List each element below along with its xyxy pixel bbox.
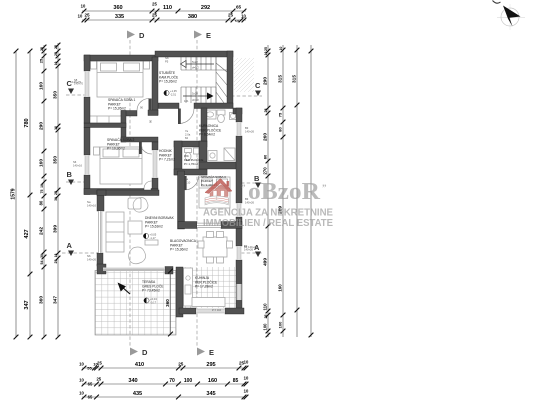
svg-text:75: 75 bbox=[278, 112, 283, 117]
svg-text:25: 25 bbox=[54, 52, 58, 56]
wall pier at bedroom1 door bbox=[148, 110, 158, 116]
svg-text:d=1/2: d=1/2 bbox=[192, 98, 199, 102]
svg-text:160: 160 bbox=[278, 284, 283, 292]
svg-text:100: 100 bbox=[184, 378, 193, 384]
svg-text:25: 25 bbox=[178, 362, 184, 367]
wall right exterior seg3 bbox=[236, 217, 242, 246]
kitchen tile grid bbox=[183, 267, 236, 308]
svg-text:100: 100 bbox=[278, 321, 283, 328]
living room sofa bbox=[106, 212, 124, 252]
svg-text:350: 350 bbox=[53, 91, 59, 99]
door bedroom2 bottom arc bbox=[144, 181, 152, 189]
svg-text:5,5: 5,5 bbox=[235, 19, 240, 23]
dining table with chairs bbox=[198, 232, 233, 264]
svg-text:290: 290 bbox=[263, 77, 269, 85]
svg-text:340: 340 bbox=[128, 378, 137, 384]
left dimension line innermost bbox=[57, 43, 59, 337]
window bedroom3 right bbox=[237, 203, 242, 217]
svg-text:25: 25 bbox=[54, 191, 58, 195]
svg-text:80: 80 bbox=[263, 154, 268, 159]
wall corner to right exterior bbox=[233, 108, 242, 114]
bedroom1 closet bbox=[85, 116, 121, 123]
wall living west pier bottom bbox=[97, 253, 103, 266]
wall living top bbox=[105, 190, 159, 196]
svg-text:25: 25 bbox=[40, 47, 44, 51]
terrace level marker bbox=[144, 297, 157, 304]
svg-text:E: E bbox=[206, 31, 211, 40]
svg-text:260: 260 bbox=[263, 133, 269, 141]
svg-text:P = 110: P = 110 bbox=[212, 308, 222, 312]
wall staircase right bbox=[227, 51, 233, 108]
svg-text:oBzoR: oBzoR bbox=[248, 178, 320, 205]
wall wc right bbox=[199, 141, 207, 175]
svg-text:1579: 1579 bbox=[10, 188, 16, 199]
svg-text:AGENCIJA ZA NEKRETNINE: AGENCIJA ZA NEKRETNINE bbox=[203, 208, 333, 219]
svg-text:B3 140+26: B3 140+26 bbox=[244, 245, 258, 249]
svg-text:10: 10 bbox=[244, 376, 249, 381]
svg-text:160: 160 bbox=[208, 378, 217, 384]
wall pier terrace-kitchen north bbox=[165, 267, 173, 275]
sliding door living-terrace bbox=[103, 268, 165, 272]
window kitchen bottom bbox=[196, 309, 225, 314]
svg-text:242: 242 bbox=[39, 227, 45, 235]
wall kitchen bottom left part bbox=[179, 308, 196, 314]
svg-text:25: 25 bbox=[264, 315, 268, 319]
svg-text:90: 90 bbox=[140, 106, 143, 110]
right dimension line 3 bbox=[296, 45, 298, 337]
section marker C left bbox=[67, 79, 82, 94]
svg-text:435: 435 bbox=[133, 391, 142, 397]
watermark text oBzoR bbox=[241, 178, 327, 205]
section marker E bottom bbox=[197, 348, 214, 358]
window bedroom2 left bbox=[85, 155, 90, 175]
section marker A right bbox=[244, 243, 261, 257]
wall wc left bbox=[174, 141, 182, 175]
svg-text:10: 10 bbox=[79, 391, 84, 396]
right dimension line 4 bbox=[310, 45, 312, 337]
tv cabinet bbox=[145, 240, 158, 245]
staircase winder treads bbox=[216, 57, 227, 103]
bed 2 with pillows bbox=[94, 147, 143, 184]
wall right exterior seg4 bbox=[236, 260, 242, 313]
wall living west top segment bbox=[97, 190, 104, 211]
svg-text:85: 85 bbox=[233, 378, 239, 384]
window dining right bbox=[237, 246, 242, 260]
svg-text:5x28: 5x28 bbox=[192, 92, 198, 96]
svg-text:10: 10 bbox=[81, 4, 86, 9]
svg-text:380: 380 bbox=[188, 14, 197, 20]
svg-text:10: 10 bbox=[244, 360, 249, 365]
svg-text:360: 360 bbox=[113, 5, 122, 11]
section marker E top bbox=[194, 31, 211, 41]
entry door leaf and arc bbox=[178, 109, 194, 125]
wall left exterior seg2 bbox=[84, 97, 90, 123]
svg-text:347: 347 bbox=[24, 300, 30, 309]
svg-text:90: 90 bbox=[178, 193, 182, 196]
wall bedroom1 right bbox=[152, 57, 158, 115]
bed 1 with pillows and nightstands bbox=[91, 61, 150, 97]
staircase treads lower flight bbox=[181, 87, 216, 103]
svg-text:10: 10 bbox=[279, 47, 283, 51]
washing machine bbox=[208, 148, 235, 161]
wall closet bedroom1 bbox=[84, 123, 126, 128]
svg-text:25: 25 bbox=[152, 2, 157, 7]
wall bath bottom bbox=[199, 162, 237, 169]
plant blob upper bbox=[133, 198, 148, 213]
door bedroom3 arc bbox=[184, 176, 199, 190]
section line B stubs bbox=[66, 181, 86, 183]
svg-text:350: 350 bbox=[53, 156, 59, 164]
svg-text:335: 335 bbox=[115, 14, 124, 20]
svg-text:347: 347 bbox=[53, 296, 59, 304]
svg-text:B: B bbox=[67, 170, 73, 179]
svg-text:”: ” bbox=[322, 183, 327, 193]
right dimension line 2 bbox=[282, 45, 284, 337]
window bath right bbox=[237, 122, 242, 136]
wall top staircase bbox=[155, 51, 233, 57]
svg-text:25: 25 bbox=[84, 12, 90, 17]
svg-text:10: 10 bbox=[78, 14, 83, 19]
svg-text:10: 10 bbox=[241, 14, 246, 19]
wall bedroom3 left bbox=[178, 171, 185, 229]
svg-text:100: 100 bbox=[263, 323, 268, 331]
terrace inner dimension 360 bbox=[170, 270, 172, 335]
wall staircase bottom with entry opening bbox=[158, 103, 179, 109]
svg-text:-2,51: -2,51 bbox=[170, 93, 177, 97]
wall left exterior seg3 bbox=[84, 128, 90, 156]
living level marker bbox=[143, 233, 156, 240]
wall right exterior seg1 bbox=[236, 108, 242, 122]
svg-text:315: 315 bbox=[278, 75, 284, 83]
glass door dining bbox=[197, 223, 221, 229]
svg-text:110: 110 bbox=[263, 303, 268, 311]
svg-text:160: 160 bbox=[39, 82, 45, 90]
wall dining top left part bbox=[178, 222, 197, 229]
section line A stubs bbox=[62, 252, 98, 254]
svg-text:345: 345 bbox=[206, 391, 215, 397]
svg-text:65: 65 bbox=[88, 395, 93, 400]
svg-text:360: 360 bbox=[39, 296, 45, 304]
svg-text:160: 160 bbox=[39, 159, 45, 167]
svg-text:10: 10 bbox=[54, 126, 58, 130]
stair level marker bbox=[164, 89, 177, 97]
svg-text:315: 315 bbox=[292, 75, 298, 83]
svg-text:360: 360 bbox=[165, 299, 170, 307]
svg-text:270: 270 bbox=[263, 167, 268, 175]
bathroom vanity and sink bbox=[204, 110, 216, 119]
svg-text:499: 499 bbox=[263, 258, 269, 266]
plant blob lower bbox=[129, 247, 146, 264]
svg-text:399: 399 bbox=[53, 225, 59, 233]
bottom dimension chain row3 bbox=[82, 396, 246, 398]
coffee table bbox=[128, 221, 142, 234]
svg-text:101: 101 bbox=[184, 99, 189, 103]
terrace tile grid bbox=[95, 271, 176, 336]
bathroom toilet bbox=[217, 110, 225, 123]
svg-text:18: 18 bbox=[40, 184, 44, 188]
window living west bbox=[98, 211, 103, 253]
svg-text:65: 65 bbox=[88, 382, 93, 387]
wall right exterior seg2 bbox=[236, 136, 242, 203]
wc toilet and sink bbox=[185, 148, 200, 161]
wall kitchen bottom right part bbox=[225, 308, 244, 314]
svg-text:d=1/2: d=1/2 bbox=[192, 66, 199, 70]
left dimension line 780/427/347 bbox=[29, 51, 31, 337]
svg-text:25: 25 bbox=[264, 109, 268, 113]
wall left exterior seg4 bbox=[84, 175, 90, 195]
svg-text:30: 30 bbox=[54, 197, 58, 201]
svg-text:10: 10 bbox=[79, 362, 84, 367]
svg-text:A: A bbox=[67, 241, 73, 250]
wall bedroom2 bottom bbox=[84, 189, 144, 195]
wall terrace-kitchen divider bbox=[176, 267, 183, 317]
section line D (vertical dashed) bbox=[129, 40, 131, 347]
wall bedroom1 bottom bbox=[121, 111, 137, 117]
right dimension line 1 bbox=[267, 45, 269, 337]
window kitchen right bbox=[237, 284, 242, 300]
svg-text:10: 10 bbox=[79, 378, 84, 383]
section marker D top bbox=[127, 31, 145, 41]
door bedroom2 arc bbox=[139, 142, 152, 154]
section marker D bottom bbox=[130, 348, 148, 358]
section marker B left bbox=[67, 170, 75, 185]
watermark logo house with red roof bbox=[205, 179, 233, 206]
svg-text:55: 55 bbox=[87, 366, 92, 371]
stair arrow down bbox=[183, 92, 214, 103]
wall terrace corner pier bbox=[97, 264, 106, 274]
top dimension chain row2 bbox=[82, 19, 246, 21]
north arrow compass bbox=[493, 1, 526, 31]
wall dining top right part bbox=[221, 222, 242, 229]
bottom dimension chain row2 bbox=[82, 383, 246, 385]
svg-text:25: 25 bbox=[264, 47, 268, 51]
svg-text:13: 13 bbox=[54, 254, 58, 258]
armchair bbox=[128, 198, 141, 209]
svg-text:IMMOBILIEN / REAL ESTATE: IMMOBILIEN / REAL ESTATE bbox=[203, 218, 333, 229]
terrace north-east arrow bbox=[119, 284, 131, 295]
wall wc bottom bbox=[174, 169, 207, 175]
wall left exterior seg1 bbox=[84, 55, 90, 71]
svg-text:25: 25 bbox=[54, 260, 58, 264]
svg-text:25: 25 bbox=[97, 361, 102, 366]
svg-text:90: 90 bbox=[149, 120, 153, 123]
svg-text:75: 75 bbox=[40, 190, 44, 194]
bottom dimension chain row1 bbox=[82, 367, 246, 369]
left dimension line segments inner bbox=[43, 45, 45, 337]
svg-text:65: 65 bbox=[236, 4, 242, 9]
svg-text:110: 110 bbox=[163, 5, 172, 11]
svg-text:10: 10 bbox=[264, 52, 268, 56]
left dimension line outermost 1579 bbox=[15, 51, 17, 337]
svg-text:C: C bbox=[255, 81, 261, 90]
svg-text:292: 292 bbox=[201, 5, 210, 11]
section marker B right bbox=[254, 174, 261, 188]
svg-text:10: 10 bbox=[54, 62, 58, 66]
svg-text:80: 80 bbox=[154, 185, 158, 188]
svg-text:25: 25 bbox=[152, 12, 158, 17]
svg-text:-0,17: -0,17 bbox=[150, 300, 157, 304]
svg-text:25: 25 bbox=[228, 12, 234, 17]
bed 3 bbox=[199, 177, 230, 208]
wall wc top bbox=[174, 141, 207, 147]
svg-text:5x28: 5x28 bbox=[192, 60, 198, 64]
stair arrow up bbox=[181, 60, 215, 70]
svg-text:25: 25 bbox=[39, 58, 44, 63]
svg-text:54: 54 bbox=[40, 261, 44, 265]
svg-text:D: D bbox=[142, 348, 148, 357]
svg-text:E: E bbox=[209, 348, 214, 357]
window hallway-bed2 interior bbox=[153, 150, 158, 178]
section line C stubs bbox=[66, 94, 86, 96]
svg-text:+1,35: +1,35 bbox=[170, 89, 177, 93]
svg-text:290: 290 bbox=[39, 122, 45, 130]
window bedroom1 left bbox=[85, 71, 90, 97]
svg-text:25: 25 bbox=[96, 377, 101, 382]
neighbour landing hatch bbox=[234, 58, 254, 92]
svg-text:25: 25 bbox=[54, 45, 58, 49]
svg-text:”: ” bbox=[241, 183, 246, 193]
wall connector bed1-bed2 bbox=[121, 111, 126, 143]
wall bedroom2 top bbox=[121, 137, 158, 142]
section marker A left bbox=[67, 241, 75, 256]
door bedroom1 leaf and arc bbox=[137, 99, 152, 111]
svg-text:D: D bbox=[139, 31, 145, 40]
section line E (vertical dashed) bbox=[196, 40, 198, 347]
staircase treads upper flight bbox=[181, 57, 227, 70]
svg-text:80: 80 bbox=[278, 127, 283, 132]
svg-text:70: 70 bbox=[169, 378, 175, 384]
svg-text:780: 780 bbox=[24, 118, 30, 127]
kitchen counter bbox=[184, 268, 226, 307]
svg-text:410: 410 bbox=[135, 362, 144, 368]
wall bedroom2 right seg1 bbox=[152, 142, 158, 150]
svg-text:10: 10 bbox=[244, 389, 249, 394]
bathroom boiler bbox=[230, 113, 237, 120]
svg-text:427: 427 bbox=[24, 229, 30, 238]
wall bath left bbox=[201, 108, 207, 141]
svg-text:295: 295 bbox=[206, 362, 215, 368]
svg-text:80: 80 bbox=[39, 200, 44, 205]
wall bedroom2 right seg2 bbox=[152, 178, 158, 195]
top dimension chain row1 bbox=[82, 10, 246, 12]
section marker C right bbox=[255, 81, 261, 96]
wall top bedroom1 bbox=[84, 55, 158, 61]
svg-text:-1,17: -1,17 bbox=[150, 236, 157, 240]
svg-text:140+70: 140+70 bbox=[72, 80, 82, 84]
svg-text:30: 30 bbox=[40, 254, 44, 258]
